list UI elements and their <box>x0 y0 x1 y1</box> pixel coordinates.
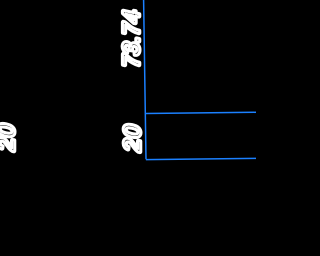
dimension text 20 (left edge) <box>0 123 14 151</box>
wire: upper horizontal dimension line <box>145 112 256 113</box>
dimension text 20 (right) <box>124 124 140 152</box>
wire: lower horizontal dimension line <box>146 158 256 159</box>
wire: vertical dimension extension line <box>144 0 146 159</box>
dimension text 73.74 <box>123 9 139 68</box>
